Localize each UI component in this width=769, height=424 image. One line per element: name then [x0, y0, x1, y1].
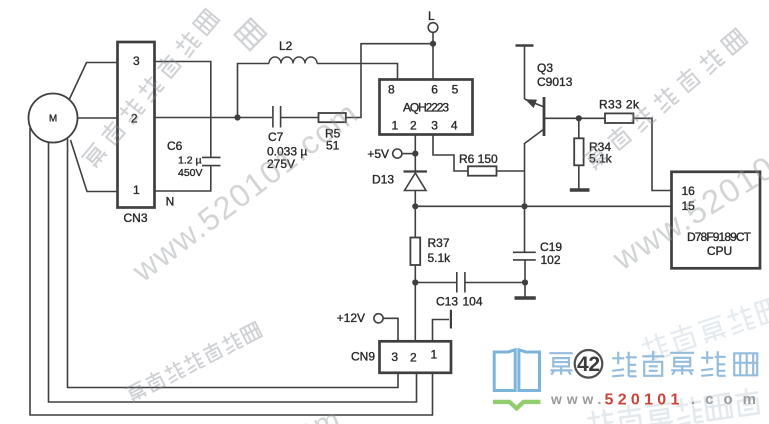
- wire motor loop to CN9 pin1: [30, 128, 433, 415]
- resistor R33: [605, 113, 633, 123]
- wire motor to CN3 pin1: [71, 140, 118, 192]
- svg-text:1: 1: [430, 348, 437, 362]
- LOGO bottom right: [493, 350, 766, 409]
- bus wire to CPU pin15: [415, 205, 671, 207]
- wire R37 to C13 node: [414, 265, 416, 283]
- svg-text:+12V: +12V: [337, 311, 365, 325]
- resistor R37: [410, 238, 420, 266]
- svg-text:CN3: CN3: [123, 211, 147, 225]
- node L dot: [430, 41, 436, 47]
- node base dot: [576, 115, 582, 121]
- svg-text:L: L: [428, 9, 435, 23]
- svg-text:www.520101.com: www.520101.com: [89, 401, 345, 424]
- svg-text:CN9: CN9: [351, 350, 375, 364]
- node C19/C13 dot: [522, 279, 528, 285]
- svg-text:1.2 µ: 1.2 µ: [178, 155, 202, 167]
- wire R34 to ground: [578, 165, 580, 188]
- wire base node to R33: [579, 117, 605, 119]
- svg-text:3: 3: [133, 54, 140, 68]
- logo 42 stamp: [575, 350, 603, 378]
- motor M: [29, 94, 78, 143]
- terminal +12V: [374, 314, 383, 323]
- terminal L: [428, 23, 438, 33]
- ground R34: [570, 188, 590, 192]
- svg-text:C13: C13: [436, 295, 458, 309]
- ground C19: [524, 283, 526, 298]
- svg-text:1: 1: [392, 118, 399, 132]
- svg-text:3: 3: [431, 118, 438, 132]
- connector CN9: [380, 341, 452, 373]
- watermark CJK row right-mid blue: [639, 294, 769, 363]
- svg-text:C6: C6: [167, 139, 183, 153]
- watermark CJK row top-left: [79, 7, 220, 169]
- svg-text:4: 4: [451, 118, 458, 132]
- svg-text:3: 3: [391, 350, 398, 364]
- wire motor to CN3 pin3: [69, 63, 117, 101]
- wire CN3 pin3 to C6: [155, 62, 211, 158]
- svg-text:.com: .com: [691, 391, 766, 408]
- svg-text:www.: www.: [550, 391, 606, 407]
- capacitor C6: [155, 157, 221, 191]
- wire bus down to R37: [414, 206, 416, 237]
- svg-text:D13: D13: [372, 173, 394, 187]
- svg-text:42: 42: [577, 353, 600, 376]
- svg-text:1: 1: [133, 183, 140, 197]
- terminal +5V: [393, 149, 402, 158]
- resistor R6: [468, 166, 497, 175]
- wire AQH pin2 to +5V node: [414, 135, 416, 154]
- watermark lone char top-center: [234, 18, 266, 50]
- wire motor loop to CN9 pin3: [68, 139, 399, 388]
- svg-text:6: 6: [431, 82, 438, 96]
- svg-text:C9013: C9013: [537, 75, 573, 89]
- wire junction up to L2: [238, 64, 270, 118]
- Q3 emitter lead: [524, 46, 526, 100]
- svg-text:R6 150: R6 150: [459, 152, 498, 166]
- svg-text:5: 5: [452, 82, 459, 96]
- wire motor to CN3 pin2: [78, 117, 118, 119]
- Q3 base wire: [544, 117, 579, 119]
- svg-text:AQH2223: AQH2223: [403, 101, 449, 115]
- node bus/D13 dot: [412, 203, 418, 209]
- logo book icon: [494, 350, 539, 391]
- svg-text:L2: L2: [279, 39, 293, 53]
- Q3 base bar: [543, 97, 546, 136]
- resistor R34: [574, 138, 583, 165]
- svg-text:8: 8: [388, 82, 395, 96]
- svg-text:2: 2: [410, 118, 417, 132]
- inductor L2: [269, 57, 317, 64]
- wire R33 to CPU pin16: [633, 118, 671, 190]
- node R37/C13 dot: [412, 279, 418, 285]
- svg-text:R37: R37: [428, 236, 450, 250]
- svg-text:+5V: +5V: [367, 147, 389, 161]
- capacitor C19: [513, 206, 536, 282]
- node +5V dot: [412, 151, 418, 157]
- capacitor C13 stub at CN9 pin1: [433, 320, 450, 342]
- resistor R5: [319, 113, 346, 122]
- node L2/C7 junction: [234, 114, 240, 120]
- watermark CJK row right-top: [581, 27, 748, 172]
- svg-text:5.1k: 5.1k: [428, 251, 452, 265]
- logo green swoosh: [493, 402, 541, 409]
- wire node down to CN9 pin2: [414, 283, 416, 342]
- svg-text:M: M: [49, 114, 57, 125]
- wire R5 up to node L: [346, 44, 433, 118]
- wire L2 to AQH pin8: [317, 64, 398, 80]
- wire node L to AQH pin6: [432, 44, 434, 80]
- IC U1 AQH2223: [380, 80, 473, 135]
- diode D13: [414, 154, 416, 172]
- svg-text:104: 104: [463, 295, 483, 309]
- svg-text:450V: 450V: [178, 167, 203, 179]
- Q3 emitter arrow: [525, 99, 537, 108]
- watermark CJK row bottom-left: [124, 320, 263, 403]
- wire base node down to R34: [578, 118, 580, 138]
- wire CN3 pin2 to C7: [155, 117, 273, 119]
- svg-text:CPU: CPU: [707, 244, 732, 258]
- svg-text:2: 2: [410, 351, 417, 365]
- svg-text:102: 102: [541, 253, 561, 267]
- capacitor C7: [273, 106, 281, 128]
- svg-text:R33 2k: R33 2k: [599, 98, 640, 112]
- svg-text:N: N: [166, 194, 175, 208]
- logo CJK text: [549, 351, 757, 377]
- transistor Q2 Q3 C9013 top bar: [516, 44, 534, 46]
- svg-text:520101: 520101: [605, 392, 684, 409]
- watermark CJK row bottom-right blue: [586, 387, 761, 424]
- capacitor C13: [415, 272, 525, 293]
- CPU U2 D78F9189CT: [672, 172, 761, 268]
- svg-text:C19: C19: [540, 240, 562, 254]
- wire motor loop to CN9 pin2: [49, 142, 417, 402]
- wire R6 to Q3 collector line: [497, 170, 525, 172]
- node bus/collector dot: [521, 203, 527, 209]
- wire C7 to R5: [281, 117, 319, 119]
- connector CN3: [118, 42, 155, 208]
- svg-text:Q3: Q3: [537, 61, 553, 75]
- Q3 collector lead: [525, 129, 545, 206]
- wire AQH pin3 to R6: [433, 135, 468, 172]
